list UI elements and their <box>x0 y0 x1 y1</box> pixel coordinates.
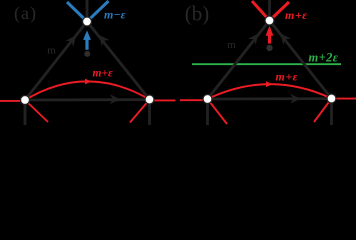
arrowhead on red arc B <box>266 81 273 87</box>
node: A apex <box>83 17 92 26</box>
svg-text:m−ε: m−ε <box>104 8 126 22</box>
arrowhead on right edge A <box>95 32 109 46</box>
wire: red line up-left from apex B <box>252 1 270 21</box>
edge: B left node to apex <box>208 21 270 100</box>
edge: B right node to apex <box>270 21 332 99</box>
wire: red horizontal right of B right node <box>332 98 356 100</box>
wire: red line up-right from apex B <box>270 2 290 21</box>
arrowhead on right edge B <box>277 30 291 44</box>
svg-text:m+2ε: m+2ε <box>309 50 339 64</box>
dot below red arrow B <box>266 45 272 51</box>
wire: red diagonal down-left from A right node <box>130 100 150 123</box>
svg-text:m+ε: m+ε <box>285 8 308 22</box>
wire: red diagonal down-right from B left node <box>208 99 228 124</box>
wire: red arc A (m+e) <box>25 81 150 100</box>
wire: red diagonal down-right from A left node <box>25 100 48 122</box>
arrowhead on bottom edge B <box>290 94 301 104</box>
red thick arrow up into apex B <box>266 26 274 44</box>
wire: black vertical below A left node <box>24 100 27 125</box>
wire: green horizontal line (m+2e) <box>192 63 341 65</box>
wire: black vertical above apex A <box>86 0 89 22</box>
edge: A left node to apex <box>25 22 87 101</box>
arrowhead on left edge A <box>65 33 79 47</box>
wire: blue line up-left from apex A <box>67 2 87 22</box>
svg-text:m: m <box>227 39 236 51</box>
wire: black vertical below B right node <box>330 99 333 126</box>
node: B apex <box>265 16 274 25</box>
edge: A bottom <box>25 98 150 101</box>
wire: blue line up-right from apex A <box>87 1 109 22</box>
wire: red horizontal right of A right node <box>150 99 176 101</box>
node: B right <box>327 94 336 103</box>
wire: black vertical below A right node <box>148 100 151 126</box>
svg-text:m+ε: m+ε <box>276 70 299 84</box>
svg-text:m+ε: m+ε <box>93 68 113 80</box>
wire: red horizontal into A left node <box>0 100 25 102</box>
node: A left <box>21 96 30 105</box>
wire: red diagonal down-left from B right node <box>314 99 332 123</box>
wire: black vertical above apex B <box>268 0 271 21</box>
edge: B bottom <box>208 97 332 100</box>
arrowhead on bottom edge A <box>110 94 121 104</box>
wire: red arc B (m+e) <box>208 84 332 99</box>
wire: red horizontal into B left node (dashed connector) <box>180 99 208 101</box>
svg-text:m: m <box>47 45 56 57</box>
node: B left <box>203 95 212 104</box>
arrowhead on left edge B <box>248 31 262 45</box>
svg-text:(b): (b) <box>185 2 210 26</box>
dot below blue arrow A <box>84 51 90 57</box>
edge: A right node to apex <box>87 22 150 100</box>
blue thick arrow up into apex A <box>83 30 91 49</box>
arrowhead on red arc A <box>85 79 92 85</box>
svg-text:(a): (a) <box>14 3 37 24</box>
node: A right <box>145 95 154 104</box>
wire: black vertical below B left node <box>206 99 209 125</box>
